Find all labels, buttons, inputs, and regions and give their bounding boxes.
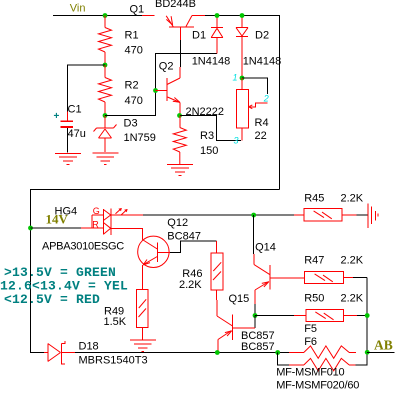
wire LED G cathode to R45	[111, 214, 294, 216]
zener diode D3 value 1N759	[124, 132, 156, 144]
svg-text:MF-MSMF010: MF-MSMF010	[276, 367, 344, 379]
ground below R49	[130, 340, 156, 351]
svg-text:1N759: 1N759	[124, 132, 156, 144]
resistor R47	[305, 272, 354, 284]
resistor R1 label	[125, 29, 139, 41]
junction 14V feed	[28, 226, 33, 231]
svg-text:R47: R47	[304, 255, 324, 267]
junction fuse right	[365, 350, 370, 355]
resistor R47 label	[304, 255, 324, 267]
svg-text:1.5K: 1.5K	[104, 316, 127, 328]
wire output rail across (top of lower section)	[31, 190, 280, 352]
transistor Q14 part number BC857	[241, 330, 275, 342]
resistor R2 label	[125, 79, 139, 91]
diode D1 (1N4148)	[211, 16, 223, 54]
svg-text:3: 3	[234, 136, 239, 146]
svg-text:R50: R50	[304, 292, 324, 304]
junction top of R1	[103, 13, 108, 18]
svg-text:2.2K: 2.2K	[341, 255, 364, 267]
LED HG4 R label	[92, 219, 99, 229]
junction top of D1	[215, 13, 220, 18]
transistor Q15 part number BC857	[241, 341, 275, 353]
resistor R49 value 1.5K	[104, 316, 127, 328]
wire R50 to right rail	[357, 315, 367, 317]
fuse F5 label	[304, 323, 317, 335]
LED HG4 G label	[93, 206, 100, 216]
svg-text:Vin: Vin	[70, 3, 86, 15]
fuse F5 (MF-MSMF010)	[289, 346, 356, 358]
resistor R46 label	[182, 268, 202, 280]
resistor R49 label	[104, 305, 124, 317]
trimmer R4 pin 1 number	[233, 73, 238, 83]
svg-text:470: 470	[125, 95, 143, 107]
resistor R46 value 2.2K	[179, 279, 202, 291]
svg-text:R3: R3	[200, 130, 214, 142]
ground below R3	[167, 165, 193, 176]
wire R4 pin1 to wiper	[242, 78, 267, 94]
zener diode D3 (1N759)	[94, 116, 117, 153]
svg-text:MBRS1540T3: MBRS1540T3	[79, 355, 148, 367]
transistor Q2 (NPN 2N2222)	[156, 67, 181, 116]
svg-text:150: 150	[200, 145, 218, 157]
diode D1 value 1N4148	[192, 55, 231, 67]
diode D2 (1N4148)	[236, 16, 248, 79]
svg-text:47u: 47u	[68, 128, 86, 140]
schottky diode D18 (MBRS1540T3)	[44, 341, 75, 364]
diode D1 label	[192, 29, 206, 41]
wire fuse F6 left connector	[278, 353, 290, 365]
wire R47 to right rail	[353, 277, 367, 279]
wire Q12 base to R46 top	[170, 241, 217, 253]
svg-text:1N4148: 1N4148	[243, 55, 282, 67]
svg-text:22: 22	[255, 130, 267, 142]
resistor R49	[137, 290, 149, 341]
resistor R2	[99, 65, 112, 116]
wire Vin red segment to Q1 emitter	[142, 15, 155, 17]
junction D2 anode / R4 pin1	[240, 76, 245, 81]
resistor R46	[211, 241, 223, 300]
resistor R45	[294, 209, 357, 222]
wire fuse F6 right connector	[355, 353, 367, 365]
wire Q2 emitter to R4 bottom	[180, 116, 241, 141]
transistor Q12 (NPN BC847)	[138, 236, 170, 289]
net label HG4	[55, 206, 78, 218]
bicolor LED HG4 (APBA3010ESGC)	[81, 208, 128, 235]
wire Vin input rail	[53, 15, 142, 17]
resistor R50	[294, 310, 357, 322]
wire bottom rail to AB	[367, 352, 394, 354]
trimmer R4 value 22	[255, 130, 267, 142]
svg-text:1: 1	[233, 73, 238, 83]
junction R1/R2	[103, 63, 108, 68]
wire 14V to LED anodes	[31, 227, 82, 229]
wire R45 to earth	[357, 214, 368, 216]
diode D18 value MBRS1540T3	[79, 355, 148, 367]
junction top of D2	[240, 13, 245, 18]
capacitor C1 plus mark	[54, 111, 60, 122]
capacitor C1 (47u polarized)	[61, 111, 74, 152]
wire node to Q15 base	[254, 316, 256, 329]
ground below C1	[55, 153, 81, 164]
LED part number APBA3010ESGC	[42, 241, 124, 253]
svg-text:Q1: Q1	[130, 3, 145, 15]
teal note line 1	[4, 265, 116, 280]
svg-text:2.2K: 2.2K	[341, 292, 364, 304]
svg-text:D2: D2	[255, 29, 269, 41]
svg-text:R45: R45	[304, 193, 324, 205]
svg-text:D3: D3	[124, 118, 138, 130]
trimmer R4 pin 3 number	[234, 136, 239, 146]
transistor Q15 (PNP BC857)	[217, 300, 255, 353]
junction Q2 emitter / R3	[177, 113, 182, 118]
teal note line 3	[4, 292, 100, 307]
fuse value MF-MSMF010	[276, 367, 344, 379]
transistor Q2 label	[159, 61, 174, 73]
svg-text:Q14: Q14	[255, 241, 276, 253]
svg-text:BD244B: BD244B	[155, 0, 196, 10]
transistor Q14 label	[255, 241, 276, 253]
trimmer R4 label	[255, 117, 269, 129]
svg-text:D18: D18	[79, 341, 99, 353]
svg-text:<12.5V = RED: <12.5V = RED	[4, 292, 100, 307]
junction Q14 emitter / R50 / Q15 base	[253, 313, 258, 318]
trimmer R4 (22 ohm)	[236, 78, 267, 141]
svg-text:2.2K: 2.2K	[179, 279, 202, 291]
zener diode D3 label	[124, 118, 138, 130]
resistor R3 value 150	[200, 145, 218, 157]
diode D2 label	[255, 29, 269, 41]
svg-text:C1: C1	[68, 104, 82, 116]
svg-text:R1: R1	[125, 29, 139, 41]
resistor R45 label	[304, 193, 324, 205]
fuse F6 label	[304, 336, 317, 348]
resistor R50 value 2.2K	[341, 292, 364, 304]
transistor Q12 label	[167, 217, 188, 229]
svg-text:F5: F5	[304, 323, 317, 335]
wire divider to C1	[67, 65, 105, 111]
svg-text:R4: R4	[255, 117, 269, 129]
svg-text:470: 470	[125, 45, 143, 57]
wire node to R50	[255, 315, 294, 317]
svg-text:MF-MSMF020/60: MF-MSMF020/60	[276, 380, 359, 392]
resistor R45 value 2.2K	[341, 193, 364, 205]
wire Q1 base to Q2 collector	[180, 40, 182, 67]
svg-text:1N4148: 1N4148	[192, 55, 231, 67]
svg-text:2.2K: 2.2K	[341, 193, 364, 205]
transistor Q15 label	[229, 293, 250, 305]
svg-text:Q2: Q2	[159, 61, 174, 73]
svg-text:Q12: Q12	[167, 217, 188, 229]
diode D2 value 1N4148	[243, 55, 282, 67]
transistor Q12 part number BC847	[167, 231, 201, 243]
net label Vin (power net)	[70, 3, 86, 15]
net label AB	[374, 338, 393, 353]
junction Q2 base	[153, 88, 158, 93]
svg-text:BC857: BC857	[241, 341, 275, 353]
ground below D3	[92, 153, 118, 164]
wire Q1 collector to output corner	[205, 16, 280, 190]
transistor Q1 (PNP BD244B)	[166, 16, 205, 41]
svg-text:D1: D1	[192, 29, 206, 41]
transistor Q1 part number BD244B	[155, 0, 196, 10]
transistor Q1 label	[130, 3, 145, 15]
resistor R2 value 470	[125, 95, 143, 107]
teal note line 2	[0, 278, 128, 293]
diode D18 label	[79, 341, 99, 353]
earth symbol right of R45	[368, 204, 378, 229]
svg-text:2N2222: 2N2222	[186, 106, 225, 118]
wire bottom rail from left rail to D18	[31, 352, 45, 353]
resistor R50 label	[304, 292, 324, 304]
junction R50 / right rail	[365, 313, 370, 318]
wire D1 anode to Q2 base	[105, 54, 217, 116]
resistor R47 value 2.2K	[341, 255, 364, 267]
svg-text:APBA3010ESGC: APBA3010ESGC	[42, 241, 124, 253]
wire right rail	[366, 278, 368, 353]
junction fuse left	[275, 350, 280, 355]
resistor R1 value 470	[125, 45, 143, 57]
wire junction to Q14 collector	[253, 215, 255, 254]
svg-text:2: 2	[263, 93, 269, 103]
capacitor C1 label	[68, 104, 82, 116]
transistor Q2 part number 2N2222	[186, 106, 225, 118]
fuse value MF-MSMF020/60	[276, 380, 359, 392]
svg-text:14V: 14V	[46, 211, 69, 226]
svg-text:AB: AB	[374, 338, 393, 353]
resistor R3	[173, 116, 186, 165]
wire Q14 emitter down to R50 node	[254, 304, 256, 316]
capacitor C1 value 47u	[68, 128, 86, 140]
resistor R3 label	[200, 130, 214, 142]
svg-text:Q15: Q15	[229, 293, 250, 305]
svg-text:+: +	[54, 111, 60, 122]
junction Q15 emitter / bottom rail	[215, 350, 220, 355]
fuse F6 (MF-MSMF020/60)	[289, 358, 355, 370]
wire LED R cathode to Q12 collector	[111, 228, 157, 249]
wire bottom rail D18 to fuses	[75, 352, 289, 354]
transistor Q14 (PNP BC857)	[254, 254, 305, 304]
svg-text:R2: R2	[125, 79, 139, 91]
junction LED-G / R45 / Q14	[251, 213, 256, 218]
junction R2/D3	[103, 113, 108, 118]
net label 14V	[46, 211, 69, 226]
resistor R1	[99, 16, 112, 66]
trimmer R4 pin 2 number	[263, 93, 269, 103]
